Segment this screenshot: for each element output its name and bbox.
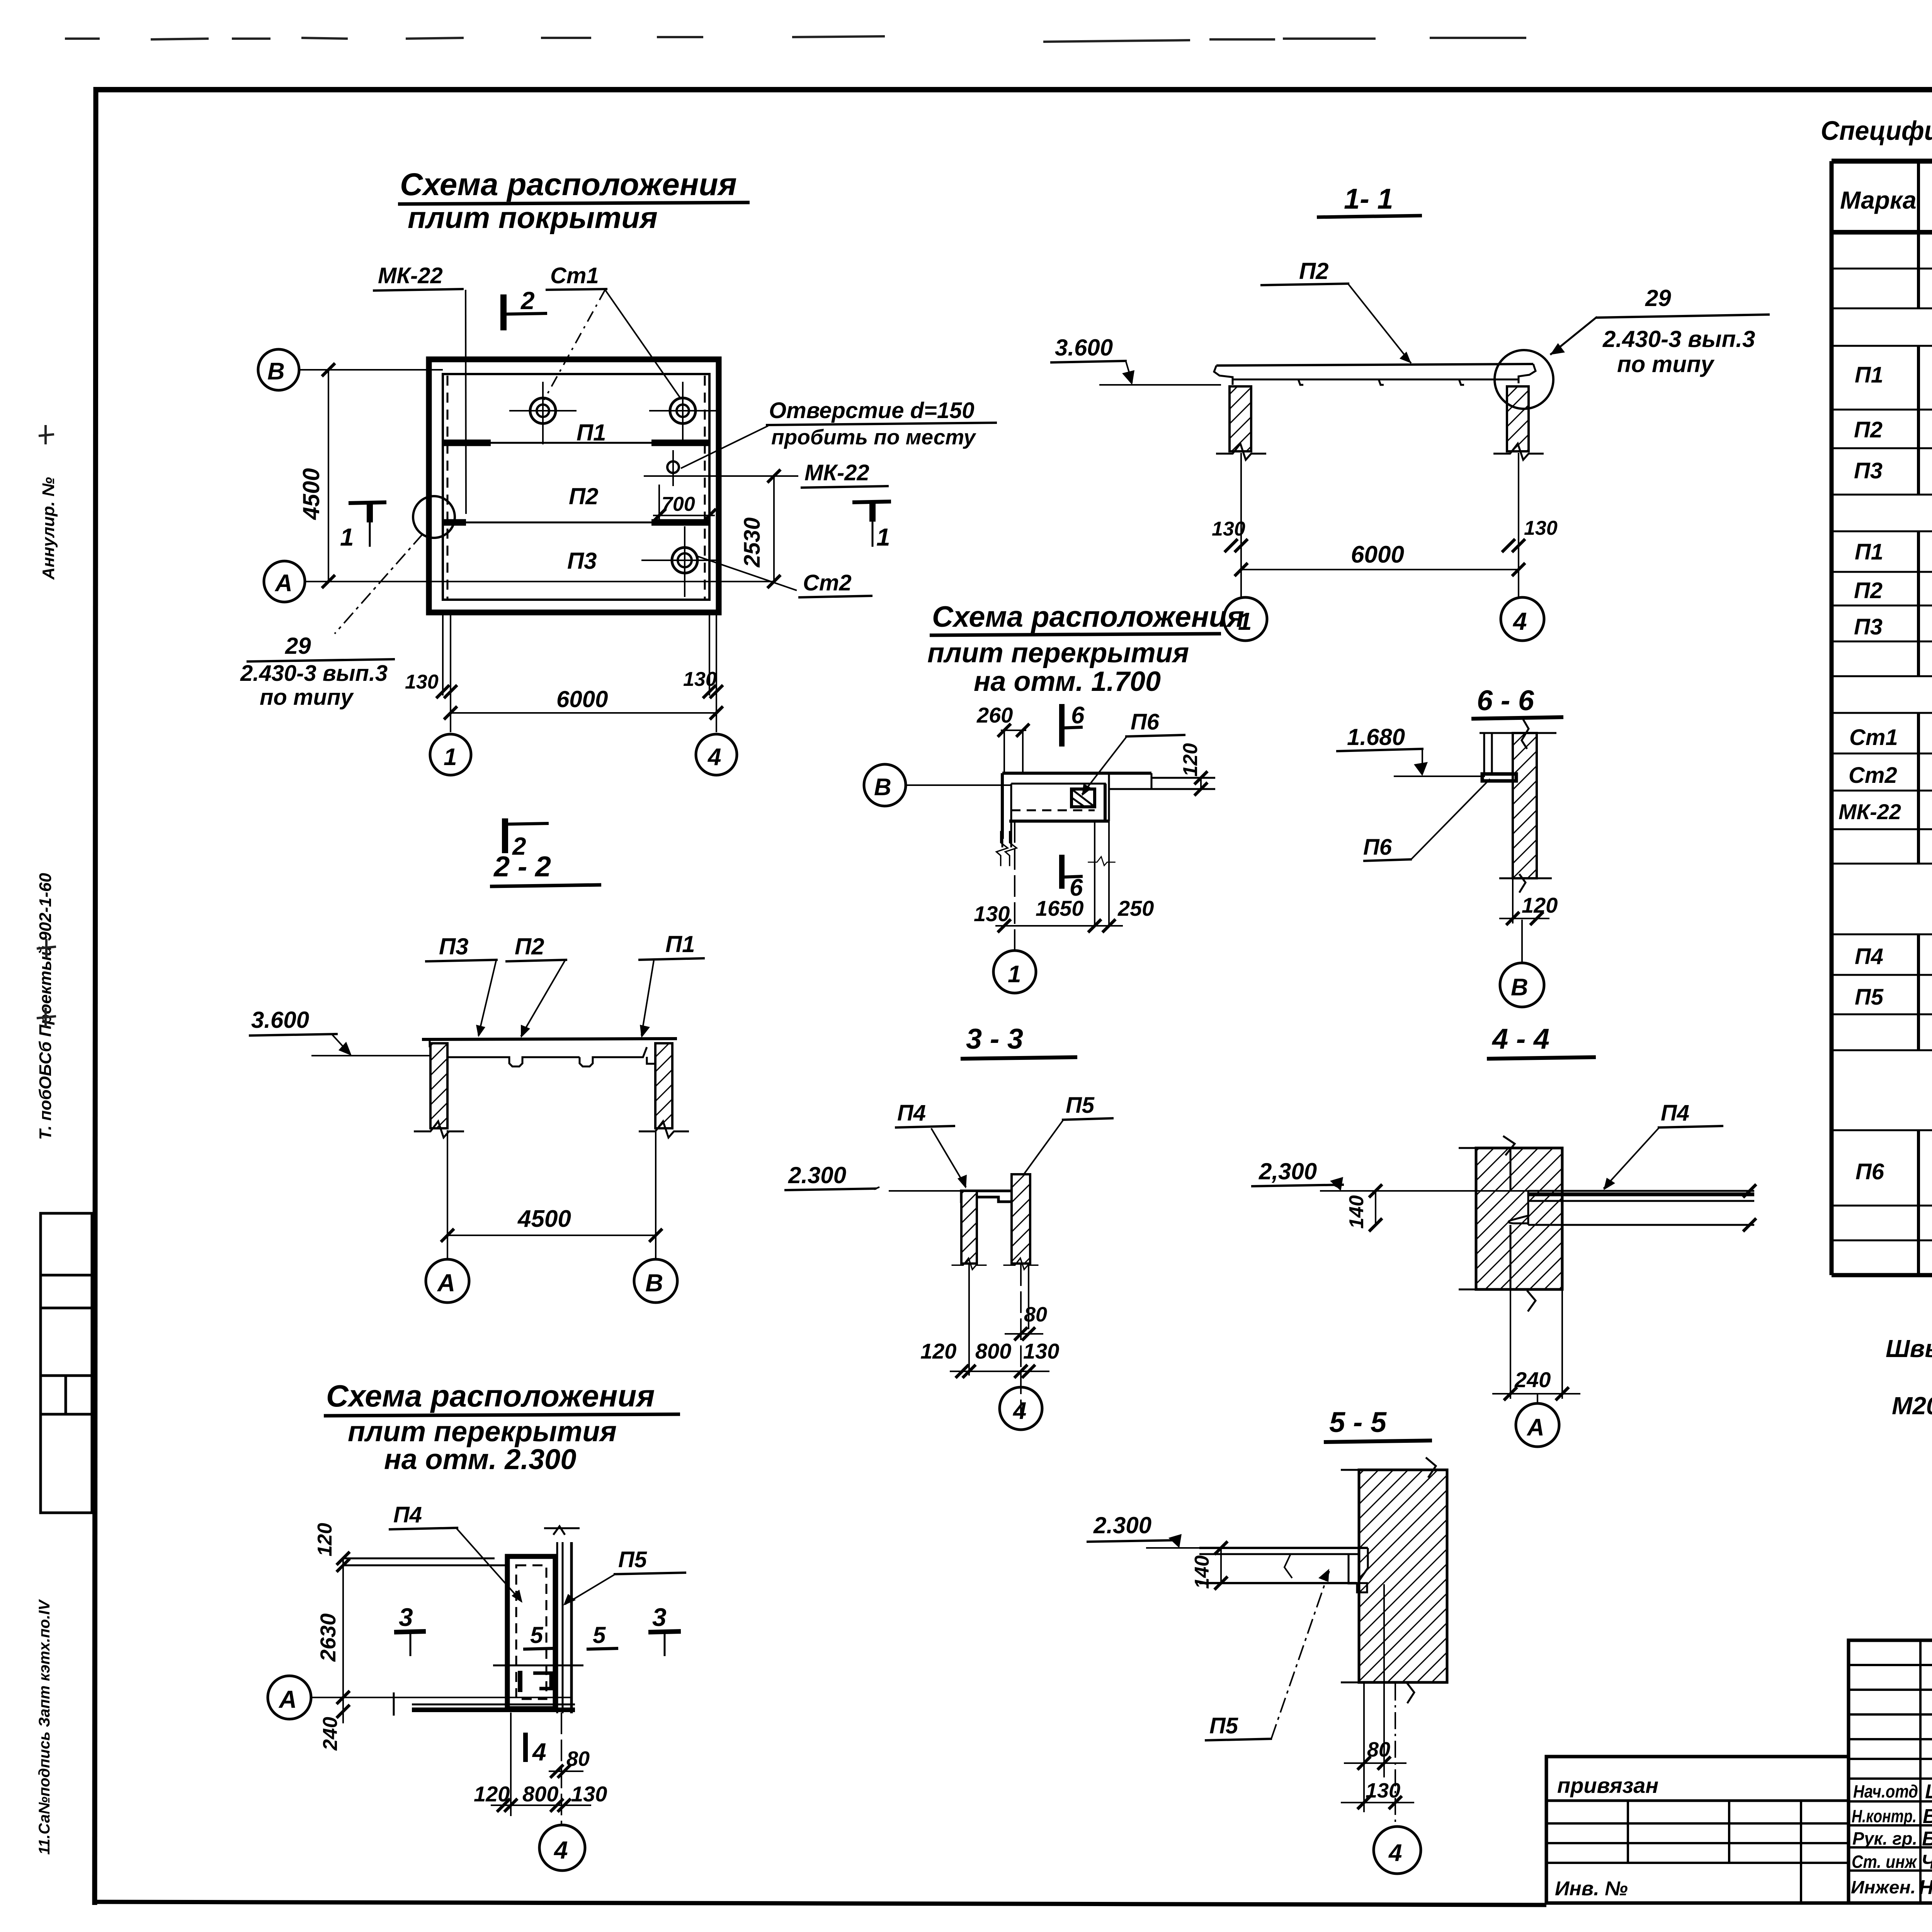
specification table grid (1832, 161, 1932, 1275)
section mark 2 bottom (505, 818, 549, 860)
привязан stamp block (1546, 1757, 1849, 1903)
section 2-2 axis lines (447, 1130, 656, 1259)
row П5 (1855, 983, 1932, 1010)
row П3 (III-IV) (1854, 606, 1932, 644)
svg-text:П4: П4 (1855, 944, 1883, 969)
dimension 2530 vertical (740, 469, 781, 588)
plan roof: dashed plate edges (447, 376, 449, 599)
plan 1.700: П6 embedded mark (1071, 789, 1095, 807)
svg-text:Швы между плитами покрыти: Швы между плитами покрытия заполнить бет… (1886, 1335, 1932, 1362)
label П4 with leader (4-4) (1604, 1100, 1723, 1190)
svg-text:120: 120 (1522, 893, 1558, 917)
note 29 / 2.430-3 вып.3 / по типу (240, 633, 395, 710)
svg-text:Ст. инж: Ст. инж (1852, 1852, 1917, 1872)
svg-text:6 - 6: 6 - 6 (1477, 684, 1534, 716)
section 5-5 slab П5 (1199, 1548, 1368, 1592)
svg-text:Бродская: Бродская (1922, 1828, 1932, 1850)
svg-text:4: 4 (553, 1836, 568, 1864)
svg-text:Отверстие d=150: Отверстие d=150 (769, 398, 975, 423)
svg-text:Ст1: Ст1 (550, 263, 599, 288)
dims 80 130 (5-5) (1341, 1584, 1414, 1825)
section 3-3 extension lines (969, 1264, 1029, 1414)
axis circle 1 (plan) (430, 734, 471, 775)
svg-text:МК-22: МК-22 (804, 460, 869, 485)
plan 2.300: top edge lines (343, 1558, 507, 1565)
svg-text:4: 4 (532, 1738, 546, 1766)
top fold dashed marks (65, 35, 1932, 42)
svg-text:1650: 1650 (1036, 896, 1084, 920)
svg-text:П1: П1 (1855, 539, 1883, 565)
dim 240 (4-4) (1492, 1291, 1580, 1403)
label П4 with leader (3-3) (895, 1100, 967, 1189)
svg-text:5 - 5: 5 - 5 (1329, 1406, 1387, 1438)
svg-text:2,300: 2,300 (1259, 1158, 1317, 1184)
svg-text:1: 1 (444, 744, 457, 770)
svg-text:140: 140 (1345, 1195, 1368, 1229)
note Отверстие d=150 (681, 398, 997, 468)
svg-text:П4: П4 (1661, 1100, 1689, 1126)
axis circle А (264, 561, 774, 602)
svg-text:Схема расположения: Схема расположения (326, 1379, 655, 1413)
svg-text:В: В (1511, 974, 1528, 1001)
dim 140 (5-5) (1191, 1541, 1228, 1590)
svg-text:130: 130 (974, 901, 1010, 926)
dimension 4500 (2-2) (441, 1206, 662, 1242)
svg-text:260: 260 (976, 703, 1013, 727)
svg-text:Инв. №: Инв. № (1555, 1878, 1628, 1900)
svg-text:3.600: 3.600 (251, 1007, 309, 1033)
svg-text:А: А (1526, 1414, 1544, 1441)
svg-text:плит перекрытия: плит перекрытия (348, 1415, 617, 1447)
signature grid (1849, 1640, 1932, 1903)
section 6-6 plate П6 (1482, 733, 1516, 781)
axis circle В (2-2) (634, 1259, 677, 1303)
svg-text:2.300: 2.300 (1093, 1512, 1151, 1538)
left margin tick marks (37, 425, 56, 1027)
svg-text:на отм. 2.300: на отм. 2.300 (384, 1443, 576, 1475)
svg-text:130: 130 (683, 668, 717, 690)
section mark 6 bottom (1062, 855, 1083, 901)
svg-text:МК-22: МК-22 (1838, 799, 1901, 824)
svg-text:П2: П2 (1854, 417, 1883, 442)
plan 2.300: section mark 3 left (394, 1603, 426, 1656)
row П2 (I-II) (1854, 409, 1932, 448)
svg-text:120: 120 (920, 1339, 956, 1363)
svg-text:4500: 4500 (298, 468, 324, 520)
svg-text:Марка: Марка (1840, 186, 1917, 214)
label П6 with leader (plan) (1082, 709, 1185, 796)
row Ст2 (1849, 760, 1932, 788)
svg-text:П2: П2 (1299, 258, 1329, 284)
svg-text:Нач.отд: Нач.отд (1853, 1781, 1918, 1801)
svg-text:1- 1: 1- 1 (1344, 183, 1393, 215)
left margin vertical handwriting (36, 477, 58, 1855)
plan 2.300: axis А (268, 1676, 571, 1719)
svg-text:4: 4 (707, 744, 721, 770)
table header texts (1840, 172, 1932, 230)
stakan Ст2 circle (641, 526, 716, 597)
label П5 with leader (5-5) (1205, 1569, 1329, 1740)
svg-text:П6: П6 (1855, 1159, 1884, 1184)
svg-text:А: А (278, 1685, 297, 1713)
svg-text:Никитенко: Никитенко (1919, 1876, 1932, 1899)
svg-text:П3: П3 (439, 934, 469, 959)
row П1 (III-IV) (1855, 531, 1932, 575)
svg-text:Черенова: Черенова (1921, 1851, 1932, 1873)
svg-text:5: 5 (530, 1622, 544, 1648)
svg-text:П2: П2 (569, 483, 599, 509)
svg-text:130: 130 (1366, 1779, 1400, 1802)
svg-text:П4: П4 (897, 1100, 926, 1126)
row П3 (I-II) (1854, 451, 1932, 494)
section 1-1 detail circle (1495, 350, 1553, 409)
plan roof: inner wall line (443, 374, 709, 600)
svg-text:по типу: по типу (260, 685, 354, 710)
svg-text:1: 1 (1008, 961, 1021, 988)
svg-text:130: 130 (1212, 518, 1245, 540)
svg-text:П2: П2 (515, 934, 544, 959)
svg-text:80: 80 (1367, 1738, 1390, 1761)
section 3-3 plate П4 channel (961, 1191, 1013, 1264)
axis circle 4 (plan) (696, 734, 737, 775)
dimension 700 (653, 485, 716, 522)
svg-text:1: 1 (876, 523, 890, 551)
left margin inventory boxes (41, 1213, 92, 1513)
svg-text:Инжен.: Инжен. (1851, 1877, 1916, 1897)
section 6-6 title (1471, 684, 1563, 719)
svg-text:Аннулир. №: Аннулир. № (39, 477, 58, 580)
signature texts (1851, 1781, 1932, 1899)
dim 120 (6-6) (1499, 879, 1558, 925)
svg-text:П5: П5 (1066, 1093, 1095, 1118)
label П6 with leader (6-6) (1363, 779, 1490, 861)
axis circle 4 (3-3) (1000, 1387, 1042, 1430)
section 3-3 level line (889, 1190, 962, 1192)
svg-text:4: 4 (1512, 607, 1527, 635)
svg-text:Власенко: Власенко (1923, 1805, 1932, 1828)
svg-text:П6: П6 (1131, 709, 1160, 735)
stakan Ст1 circle left (509, 382, 577, 444)
svg-text:130: 130 (1524, 517, 1558, 539)
svg-text:П3: П3 (1854, 614, 1883, 639)
svg-text:Шейко: Шейко (1925, 1781, 1932, 1803)
section mark 1 right (852, 502, 891, 551)
svg-text:3 - 3: 3 - 3 (966, 1023, 1023, 1055)
svg-text:130: 130 (571, 1782, 607, 1806)
svg-text:5: 5 (593, 1622, 606, 1648)
axis circle 4 (1-1) (1501, 597, 1544, 641)
label МК-22 right with leader (644, 460, 889, 488)
svg-text:120: 120 (1179, 743, 1202, 777)
row П1 (I-II) (1855, 353, 1932, 399)
svg-text:Схема расположения: Схема расположения (400, 167, 737, 202)
section mark 6 top (1062, 702, 1085, 747)
svg-text:П1: П1 (665, 931, 695, 957)
svg-text:А: А (274, 570, 293, 597)
svg-text:140: 140 (1191, 1555, 1213, 1589)
svg-text:Ст1: Ст1 (1849, 725, 1898, 750)
svg-text:Рук. гр.: Рук. гр. (1852, 1828, 1917, 1849)
dim 80 (3-3) (1005, 1303, 1047, 1340)
hole d=150 circle (667, 450, 679, 486)
svg-text:700: 700 (662, 493, 695, 515)
svg-text:29: 29 (1645, 285, 1671, 311)
row П6 (1855, 1146, 1932, 1190)
svg-text:4 - 4: 4 - 4 (1492, 1023, 1549, 1055)
label МК-22 top with leader (373, 263, 466, 514)
plan 2.300: section mark 3 right (648, 1603, 681, 1656)
svg-text:120: 120 (314, 1523, 336, 1556)
svg-text:1: 1 (340, 523, 354, 551)
detail circle on left edge (413, 496, 455, 538)
axis line + circle В (6-6) (1500, 920, 1544, 1007)
specification table heading (1821, 116, 1932, 165)
svg-text:240: 240 (319, 1717, 342, 1751)
section 5-5 title (1324, 1406, 1432, 1442)
plan 2.300: section cut 5-5 horizontal (493, 1665, 583, 1692)
plan 1.700: axis line down + circle 1 (993, 821, 1036, 993)
dim 260 (plan 1.700) (976, 703, 1029, 773)
svg-text:П3: П3 (567, 548, 597, 574)
svg-text:В: В (874, 774, 891, 801)
section 3-3 plate П5 (1012, 1174, 1030, 1264)
plan roof: outer wall rectangle (429, 359, 719, 612)
svg-text:П1: П1 (577, 420, 606, 446)
svg-text:Н.контр.: Н.контр. (1852, 1806, 1917, 1826)
svg-text:на отм. 1.700: на отм. 1.700 (974, 666, 1161, 697)
axis circle В (258, 349, 443, 390)
section 4-4 title (1487, 1023, 1596, 1059)
axis circle 4 (5-5) (1374, 1827, 1421, 1874)
svg-text:П5: П5 (618, 1547, 647, 1572)
section 1-1 right column (1493, 386, 1544, 460)
svg-text:Ст2: Ст2 (1849, 763, 1897, 788)
svg-text:Спецификация ксхемам расположе: Спецификация ксхемам расположения плит п… (1821, 116, 1932, 146)
section 2-2 slab with ribs (422, 1039, 677, 1066)
svg-text:плит покрытия: плит покрытия (408, 201, 658, 235)
svg-text:4: 4 (1012, 1398, 1026, 1424)
section 1-1 title (1317, 183, 1422, 217)
label Ст2 with leader (698, 556, 872, 597)
svg-text:по типу: по типу (1617, 351, 1715, 377)
section 3-3 elevation 2.300 (784, 1162, 879, 1190)
label П5 with leader (3-3) (1016, 1093, 1114, 1186)
plan 2.300: plate П4 rectangle (507, 1556, 555, 1709)
svg-text:П3: П3 (1854, 458, 1883, 483)
svg-text:П1: П1 (1855, 362, 1883, 388)
section 4-4 wall (1459, 1136, 1562, 1311)
svg-text:240: 240 (1514, 1367, 1551, 1392)
svg-text:П5: П5 (1209, 1713, 1238, 1738)
svg-text:3.600: 3.600 (1055, 335, 1113, 361)
elevation 3.600 (1-1) (1050, 335, 1221, 385)
svg-text:2530: 2530 (740, 517, 765, 568)
svg-text:130: 130 (1023, 1339, 1059, 1363)
plan 1.700: axis circle В (864, 764, 1012, 806)
svg-text:3: 3 (399, 1603, 413, 1631)
labels П3 П2 П1 with leaders (2-2) (425, 931, 705, 1038)
row МК-22 (1838, 792, 1932, 832)
plan 2.300: П5 label (563, 1547, 686, 1605)
plan 1.700: plate outline (1002, 773, 1215, 847)
dims 130 1650 250 (plan 1.700) (974, 821, 1154, 932)
section 1-1 left column (1216, 386, 1266, 460)
bottom extension lines and 130 dims (443, 612, 716, 732)
section mark 1 left (340, 502, 386, 551)
label П2 with leader (1260, 258, 1411, 363)
plan 2.300: section mark 4 bottom (526, 1733, 546, 1766)
svg-text:2.430-3 вып.3: 2.430-3 вып.3 (240, 661, 388, 686)
svg-text:2: 2 (520, 287, 535, 315)
svg-text:В: В (267, 358, 285, 385)
section mark 2 top (503, 287, 547, 330)
plan 2.300: bottom slab edge (394, 1692, 575, 1716)
plate joint П2/П3 (443, 522, 709, 524)
svg-text:11.Са№подпись Запт кэтх.по.I: 11.Са№подпись Запт кэтх.по.IV (36, 1599, 53, 1855)
svg-text:М200 на мелком заполнител: М200 на мелком заполнителе. (1892, 1392, 1932, 1420)
svg-text:2630: 2630 (316, 1613, 340, 1662)
leader dash-dot to note 29 (335, 534, 423, 634)
section 1-1 axis lines (1241, 453, 1519, 597)
axis circle 1 (1-1) (1224, 597, 1267, 641)
note text below table (1886, 1335, 1932, 1420)
plan 1.700: break marks bottom (997, 831, 1008, 866)
elevation 2.300 (5-5) (1087, 1512, 1199, 1548)
section 3-3 break marks (952, 1258, 987, 1269)
note 29 2.430-3 вып.3 по типу (right) (1550, 285, 1770, 377)
axis circle А (4-4) (1516, 1403, 1559, 1447)
svg-text:6000: 6000 (556, 686, 608, 712)
svg-text:80: 80 (1024, 1303, 1047, 1326)
svg-text:250: 250 (1117, 896, 1154, 920)
dim 120 right (plan 1.700) (1179, 743, 1207, 796)
svg-text:П5: П5 (1855, 985, 1884, 1010)
dimension 6000 (444, 686, 723, 719)
dims 120 800 130 (3-3) (920, 1339, 1059, 1378)
elevation 3.600 (2-2) (249, 1007, 430, 1056)
130 dims (1-1) (1212, 517, 1558, 552)
plate joint П1/П2 (443, 442, 709, 444)
section 2-2 title (490, 850, 601, 886)
svg-text:29: 29 (285, 633, 311, 659)
svg-text:пробить по месту: пробить по месту (771, 425, 976, 449)
svg-text:Т. побОБСб Проектый 902-1-6: Т. побОБСб Проектый 902-1-60 (36, 873, 55, 1140)
svg-text:3: 3 (652, 1603, 667, 1631)
svg-text:4500: 4500 (517, 1206, 571, 1232)
svg-text:Схема расположения: Схема расположения (932, 600, 1244, 633)
section 5-5 wall (1341, 1458, 1447, 1703)
section 2-2 right wall (639, 1043, 689, 1138)
svg-text:А: А (437, 1269, 455, 1297)
svg-text:6: 6 (1071, 702, 1085, 729)
section 6-6 wall (1480, 719, 1556, 893)
row П4 (1855, 937, 1932, 976)
svg-text:2.430-3 вып.3: 2.430-3 вып.3 (1602, 326, 1755, 352)
dimension 6000 (1-1) (1235, 541, 1525, 576)
svg-text:П6: П6 (1363, 835, 1392, 860)
svg-text:130: 130 (405, 671, 439, 693)
svg-text:привязан: привязан (1557, 1773, 1658, 1798)
section 4-4 slab П4 (1509, 1184, 1756, 1231)
section 2-2 left wall (414, 1043, 464, 1138)
svg-text:П4: П4 (393, 1502, 422, 1527)
title: Схема расположения плит перекрытия на отм. 2.300 (324, 1379, 680, 1475)
plan 2.300: axis circle 4 (539, 1713, 585, 1871)
svg-text:МК-22: МК-22 (378, 263, 443, 288)
svg-text:2.300: 2.300 (788, 1162, 846, 1188)
svg-text:1.680: 1.680 (1347, 724, 1405, 750)
plan 2.300: section 5 digits (523, 1622, 618, 1649)
dim 140 (4-4) (1345, 1184, 1382, 1231)
label Ст1 with leaders (544, 263, 681, 400)
elevation 1.680 (6-6) (1336, 724, 1485, 776)
stakan Ст1 circle right (649, 382, 716, 444)
svg-text:6000: 6000 (1351, 541, 1404, 568)
section 1-1 slab П2 (1214, 364, 1536, 385)
title: Схема расположения плит перекрытия на отм. 1.700 (927, 600, 1244, 697)
section 4-4 level line 2.300 (1251, 1158, 1528, 1191)
dimension 4500 vertical (298, 363, 335, 588)
svg-text:800: 800 (975, 1339, 1011, 1363)
title: Схема расположения плит покрытия (398, 167, 750, 235)
row П2 (III-IV) (1854, 570, 1932, 607)
svg-text:П2: П2 (1854, 578, 1883, 603)
svg-text:4: 4 (1388, 1840, 1402, 1866)
section 3-3 title (961, 1023, 1077, 1059)
svg-text:В: В (645, 1269, 663, 1297)
plan 2.300: П5 plate band (544, 1526, 580, 1713)
plan 2.300: dims 80 120 800 130 (474, 1713, 607, 1816)
table vertical lines (1918, 161, 1932, 1275)
row Ст1 (1849, 724, 1932, 750)
svg-text:800: 800 (522, 1782, 558, 1806)
svg-text:Ст2: Ст2 (803, 570, 852, 595)
plan 2.300: П4 label (389, 1502, 522, 1603)
plan 2.300: dims left (120 2630 240) (314, 1523, 350, 1751)
axis circle А (2-2) (426, 1259, 469, 1303)
svg-text:плит перекрытия: плит перекрытия (927, 638, 1189, 668)
svg-text:2 - 2: 2 - 2 (493, 850, 551, 883)
